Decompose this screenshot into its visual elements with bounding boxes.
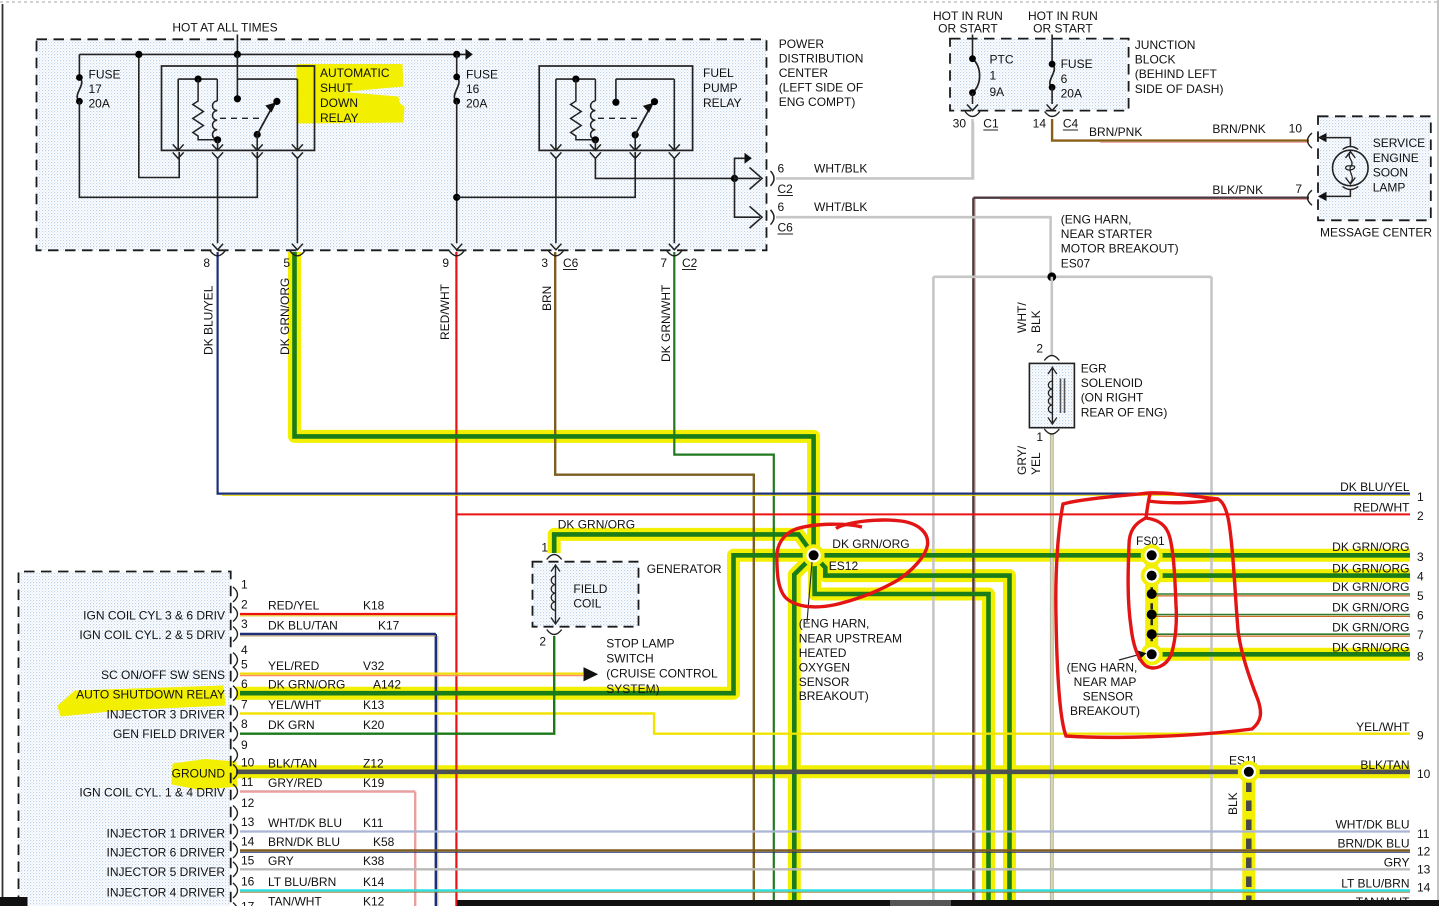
highlight: generator field wire to ES12 [554,534,813,555]
svg-text:11: 11 [241,775,254,789]
svg-text:10: 10 [1289,122,1303,136]
svg-text:20A: 20A [89,97,110,111]
svg-text:(ENG HARN,: (ENG HARN, [799,617,870,631]
svg-text:RED/YEL: RED/YEL [268,599,320,613]
ASD relay internals [178,78,217,80]
FPR switch arm [635,107,650,135]
FPR pin wires [555,158,557,243]
svg-text:ES12: ES12 [829,559,859,573]
svg-text:2: 2 [241,598,248,612]
svg-text:K14: K14 [363,875,385,889]
svg-text:DK GRN/ORG: DK GRN/ORG [1332,580,1409,594]
svg-text:11: 11 [1417,827,1430,841]
splice FS01 dot1 [1141,544,1163,566]
svg-text:NEAR MAP: NEAR MAP [1074,675,1137,689]
wire DK GRN/ORG: ES12 to PCM pin6 [240,555,814,693]
svg-text:K20: K20 [363,718,385,732]
svg-text:EGR: EGR [1081,361,1107,375]
svg-text:RED/WHT: RED/WHT [438,283,452,340]
svg-text:WHT/: WHT/ [1015,302,1029,333]
wire DK GRN/ORG wire5 right (thin) [1152,593,1410,595]
FPR coil ground to WHT/BLK outputs [595,158,734,178]
ASD relay box [162,66,315,150]
svg-text:LT BLU/BRN: LT BLU/BRN [1341,877,1409,891]
PTC 1 9A [972,35,974,59]
svg-text:FUSE: FUSE [89,68,121,82]
svg-text:FUSE: FUSE [1061,57,1093,71]
svg-text:12: 12 [1417,845,1431,859]
wire BLK dashes below ES11 [1246,782,1252,906]
svg-text:10: 10 [1417,767,1431,781]
svg-text:30: 30 [953,117,967,131]
svg-text:YEL/WHT: YEL/WHT [268,698,322,712]
svg-text:3: 3 [541,256,548,270]
svg-text:14: 14 [1033,117,1047,131]
svg-text:20A: 20A [1061,87,1082,101]
svg-text:2: 2 [1036,342,1043,356]
svg-text:C2: C2 [778,182,794,196]
svg-text:DK GRN/ORG: DK GRN/ORG [278,278,292,355]
svg-text:1: 1 [241,578,248,592]
red annotation outer loop around FS01 [1056,493,1261,737]
svg-text:K17: K17 [378,619,400,633]
svg-text:BLK/TAN: BLK/TAN [268,756,317,770]
svg-text:GEN FIELD DRIVER: GEN FIELD DRIVER [113,727,225,741]
svg-text:15: 15 [241,854,255,868]
svg-text:K18: K18 [363,599,385,613]
wire ES07 breakout horizontal [933,275,1211,278]
svg-text:MESSAGE CENTER: MESSAGE CENTER [1320,226,1432,240]
svg-text:DK GRN/ORG: DK GRN/ORG [1332,601,1409,615]
svg-text:14: 14 [241,835,255,849]
svg-text:YEL: YEL [1029,452,1043,475]
svg-text:13: 13 [1417,863,1431,877]
PCM dashed box [19,572,231,906]
field coil dashed box [533,562,639,627]
FPR internals [556,78,596,80]
svg-text:4: 4 [241,643,248,657]
svg-text:REAR OF ENG): REAR OF ENG) [1081,405,1168,419]
wire DK GRN/ORG wire6 right (thin) [1152,614,1410,616]
svg-text:9: 9 [241,738,248,752]
svg-text:IGN COIL CYL. 2 & 5 DRIV: IGN COIL CYL. 2 & 5 DRIV [79,628,225,642]
svg-text:A142: A142 [373,678,401,692]
svg-text:YEL/RED: YEL/RED [268,659,320,673]
svg-text:(LEFT SIDE OF: (LEFT SIDE OF [779,81,863,95]
svg-text:8: 8 [241,717,248,731]
wire DK GRN/ORG: PDC pin5 down and across to ES12 [295,252,814,555]
svg-text:JUNCTION: JUNCTION [1135,38,1196,52]
svg-text:INJECTOR 1 DRIVER: INJECTOR 1 DRIVER [107,827,226,841]
highlight: FS01 splice column [1145,548,1158,660]
ASD switch arm [257,107,272,135]
svg-text:BREAKOUT): BREAKOUT) [1070,704,1140,718]
svg-text:OR START: OR START [1033,22,1093,36]
svg-text:SOLENOID: SOLENOID [1081,376,1143,390]
FPR coil resistor [571,79,596,140]
svg-text:DOWN: DOWN [320,96,358,110]
svg-text:1: 1 [541,541,548,555]
svg-text:2: 2 [1417,509,1424,523]
FPR switch [615,79,617,102]
svg-text:DK GRN/ORG: DK GRN/ORG [1332,641,1409,655]
svg-text:7: 7 [241,698,248,712]
wire RED/WHT to right edge (2) [456,513,1410,515]
wire WHT/BLK vertical ES07 left branch [932,277,935,906]
FUSE 6 20A [1051,35,1053,65]
C6 output chevron [750,206,763,228]
red annotation circle around ES12 [777,520,928,607]
svg-text:WHT/DK BLU: WHT/DK BLU [268,816,342,830]
wire BRN/DK BLU row14 [240,849,1410,851]
svg-text:6: 6 [778,161,785,175]
svg-text:C6: C6 [778,221,794,235]
svg-text:2: 2 [539,635,546,649]
svg-text:12: 12 [241,796,255,810]
svg-text:8: 8 [203,256,210,270]
splice FS01 dot5 [1147,629,1157,639]
wire DK BLU/YEL from PDC pin8 [218,252,1410,494]
svg-text:MOTOR BREAKOUT): MOTOR BREAKOUT) [1061,242,1179,256]
svg-text:DISTRIBUTION: DISTRIBUTION [779,52,864,66]
wire BRN/PNK [1052,119,1309,141]
svg-text:8: 8 [1417,649,1424,663]
lamp top lead [1308,133,1313,148]
highlight: DK GRN/ORG from PDC pin5 to ES12 [295,252,814,555]
wire WHT/BLK from PTC pin30 [971,119,974,178]
svg-text:7: 7 [660,256,667,270]
wire GRY/YEL vertical from EGR pin1 [1050,433,1053,906]
svg-text:INJECTOR 4 DRIVER: INJECTOR 4 DRIVER [107,886,226,900]
svg-text:SWITCH: SWITCH [606,652,653,666]
EGR core bars [1060,378,1062,413]
svg-text:TAN/WHT: TAN/WHT [268,895,322,906]
red annotation inner loop around FS01 column [1128,494,1176,668]
wire fuse17 to ASD pivot [79,101,257,197]
wire fuse16 to FPR pivot [457,152,636,197]
wire LT BLU/BRN row16 [240,889,1410,891]
fuel pump relay box [539,66,692,150]
wire DK GRN PCM row8 to field coil pin2 [240,636,554,734]
wire RED/YEL PCM row2 [240,613,456,615]
svg-text:SYSTEM): SYSTEM) [606,682,659,696]
svg-text:DK GRN: DK GRN [268,718,315,732]
svg-text:BRN/DK BLU: BRN/DK BLU [1337,837,1409,851]
svg-text:10: 10 [241,756,255,770]
lamp filament [1346,152,1355,183]
wire BLK/TAN row10 core [236,769,1410,774]
svg-text:LAMP: LAMP [1373,180,1406,194]
wire DK GRN/ORG: ES12 SE branch down [814,555,1010,906]
svg-text:INJECTOR 3 DRIVER: INJECTOR 3 DRIVER [107,708,226,722]
lamp bottom lead [1346,178,1356,185]
FPR coil inductor [594,79,596,101]
message center fill [1318,116,1431,220]
svg-text:DK GRN/ORG: DK GRN/ORG [1332,620,1409,634]
svg-text:1: 1 [1036,430,1043,444]
svg-text:WHT/DK BLU: WHT/DK BLU [1335,818,1409,832]
svg-text:BLK/TAN: BLK/TAN [1360,758,1409,772]
svg-text:BRN/PNK: BRN/PNK [1212,122,1265,136]
splice FS01 dot4 [1147,610,1157,620]
service engine soon lamp [1333,150,1369,186]
highlight: wire 4 right portion [1146,569,1410,582]
field coil winding [551,576,555,610]
svg-text:DK GRN/ORG: DK GRN/ORG [1332,540,1409,554]
splice FS01 dot3 [1147,589,1157,599]
EGR solenoid box [1029,363,1074,427]
svg-text:SHUT: SHUT [320,81,353,95]
wire DK GRN/ORG: ES12 S branch down [815,555,989,906]
feed wire from HOT AT ALL TIMES [236,35,238,55]
svg-text:K12: K12 [363,895,385,906]
svg-text:BREAKOUT): BREAKOUT) [799,689,869,703]
svg-text:17: 17 [89,82,103,96]
svg-text:ENG COMPT): ENG COMPT) [779,95,856,109]
node ES12 [803,544,825,566]
svg-text:INJECTOR 5 DRIVER: INJECTOR 5 DRIVER [107,865,226,879]
svg-text:7: 7 [1295,182,1302,196]
svg-text:GRY/RED: GRY/RED [268,776,323,790]
wire DK GRN/ORG wire4 right [1146,573,1410,578]
svg-text:C1: C1 [983,117,999,131]
ASD pin wires to PDC bottom [217,158,219,243]
message center dashed box [1318,116,1431,220]
wire WHT/BLK vertical ES07 right branch [1210,277,1213,906]
svg-text:WHT/BLK: WHT/BLK [814,200,867,214]
svg-text:Z12: Z12 [363,756,384,770]
bottom black bar [457,900,1439,906]
svg-text:C2: C2 [682,256,698,270]
ASD coil resistor [193,79,218,140]
svg-text:SENSOR: SENSOR [799,675,850,689]
wire YEL/RED PCM row5 [240,672,583,674]
svg-text:9: 9 [442,256,449,270]
svg-text:RELAY: RELAY [320,111,358,125]
EGR coil [1048,381,1052,413]
svg-text:3: 3 [241,617,248,631]
wire DK GRN/ORG wire8 right [1146,652,1410,657]
svg-text:SOON: SOON [1373,166,1408,180]
svg-text:14: 14 [1417,881,1431,895]
svg-text:16: 16 [241,875,255,889]
svg-text:FIELD: FIELD [573,582,607,596]
svg-text:(ENG HARN,: (ENG HARN, [1067,661,1138,675]
svg-text:PTC: PTC [990,53,1014,67]
svg-text:SC ON/OFF SW SENS: SC ON/OFF SW SENS [101,668,225,682]
EGR solenoid box fill [1029,363,1074,427]
svg-text:NEAR STARTER: NEAR STARTER [1061,227,1153,241]
svg-text:RED/WHT: RED/WHT [1354,501,1411,515]
svg-text:9: 9 [1417,729,1424,743]
svg-text:(CRUISE CONTROL: (CRUISE CONTROL [606,667,718,681]
wire DK BLU/TAN vertical from PCM pin3 [435,634,437,906]
PCM box fill [19,572,231,906]
svg-text:17: 17 [241,900,255,906]
svg-text:20A: 20A [466,97,487,111]
junction block fill [950,39,1129,111]
svg-text:DK GRN/ORG: DK GRN/ORG [558,517,635,531]
svg-text:SENSOR: SENSOR [1083,690,1134,704]
svg-text:1: 1 [990,69,997,83]
svg-text:(ON RIGHT: (ON RIGHT [1081,391,1144,405]
wire GRY/RED PCM row11 [240,790,415,792]
bus wire [79,53,466,55]
wire DK BLU/TAN PCM row3 [240,633,436,635]
svg-text:DK GRN/ORG: DK GRN/ORG [1332,562,1409,576]
svg-text:DK BLU/YEL: DK BLU/YEL [1340,480,1410,494]
wire DK GRN/ORG wire7 right (thin) [1152,633,1410,635]
highlight: wire 8 right portion [1146,648,1410,661]
svg-text:FUEL: FUEL [703,66,734,80]
svg-text:DK BLU/YEL: DK BLU/YEL [202,285,216,355]
fuse 16 [453,51,460,58]
arrow to stop lamp switch [584,668,597,681]
svg-text:6: 6 [241,677,248,691]
wire DK GRN/ORG: ES12 SW branch down [794,555,813,906]
wire BLK/PNK to message center [973,196,1309,198]
wire BRN vertical from PDC pin3 [555,252,754,906]
svg-text:C6: C6 [563,256,579,270]
wire to C6 output [735,178,761,217]
svg-text:BRN/DK BLU: BRN/DK BLU [268,835,340,849]
svg-text:SIDE OF DASH): SIDE OF DASH) [1135,82,1224,96]
highlight AUTO SHUTDOWN RELAY [58,686,225,716]
svg-text:IGN COIL CYL. 1 & 4 DRIV: IGN COIL CYL. 1 & 4 DRIV [79,786,225,800]
svg-text:ENGINE: ENGINE [1373,151,1419,165]
wire GRY/RED vertical from PCM pin11 [414,792,416,906]
svg-text:HOT AT ALL TIMES: HOT AT ALL TIMES [172,21,277,35]
frame top dotted [0,1,1439,3]
svg-text:BLK: BLK [1029,310,1043,333]
svg-text:BRN/PNK: BRN/PNK [1089,125,1142,139]
svg-text:K38: K38 [363,854,385,868]
svg-text:6: 6 [1417,608,1424,622]
svg-text:COIL: COIL [573,596,601,610]
svg-text:INJECTOR 6 DRIVER: INJECTOR 6 DRIVER [107,846,226,860]
C2 output chevron [750,168,763,190]
svg-text:16: 16 [466,82,480,96]
svg-text:POWER: POWER [779,37,825,51]
svg-text:WHT/BLK: WHT/BLK [814,161,867,175]
svg-text:C4: C4 [1063,117,1079,131]
wire WHT/DK BLU row13 [240,830,1410,832]
svg-text:AUTO SHUTDOWN RELAY: AUTO SHUTDOWN RELAY [76,688,225,702]
svg-text:K19: K19 [363,776,385,790]
splice FS01 dot2 [1141,565,1163,587]
svg-text:ES07: ES07 [1061,256,1091,270]
svg-text:SERVICE: SERVICE [1373,136,1425,150]
svg-text:OXYGEN: OXYGEN [799,660,850,674]
ASD relay pin chevrons [173,144,184,150]
svg-text:4: 4 [1417,569,1424,583]
svg-text:3: 3 [1417,550,1424,564]
highlight GROUND [172,760,237,790]
svg-text:HEATED: HEATED [799,646,847,660]
frame right [1437,0,1439,906]
wire WHT/BLK C2 [776,122,973,178]
highlight: ES12 S branch [815,555,989,906]
svg-text:(ENG HARN,: (ENG HARN, [1061,212,1132,226]
label AUTOMATIC SHUT DOWN RELAY highlight [297,65,404,124]
svg-text:GRY/: GRY/ [1015,445,1029,475]
highlight: ES12 SE branch [814,555,1010,906]
svg-text:DK BLU/TAN: DK BLU/TAN [268,619,338,633]
svg-text:6: 6 [1061,72,1068,86]
PDC box fill [37,39,767,250]
svg-text:NEAR UPSTREAM: NEAR UPSTREAM [799,631,902,645]
highlight: ES12 SW branch down [794,555,813,906]
svg-text:V32: V32 [363,659,385,673]
svg-text:13: 13 [241,815,255,829]
svg-text:CENTER: CENTER [779,66,829,80]
svg-text:1: 1 [1417,490,1424,504]
svg-text:DK GRN/ORG: DK GRN/ORG [832,537,909,551]
svg-text:PUMP: PUMP [703,81,738,95]
svg-text:7: 7 [1417,628,1424,642]
wire DK GRN/ORG: field coil pin1 to ES12 [554,534,813,555]
wire bus to ASD coil pin [139,54,179,177]
wire DK GRN/ORG wire3 right [814,553,1410,558]
svg-text:K58: K58 [373,835,395,849]
fuse 17 [78,54,80,77]
leader to FS01 [1119,655,1138,660]
svg-text:BLOCK: BLOCK [1135,53,1176,67]
splice FS01 dot6 [1141,643,1163,665]
ASD switch [234,51,241,58]
svg-text:5: 5 [1417,589,1424,603]
highlight: ES12 to PCM pin6 [236,555,814,693]
wire WHT/BLK C6 [776,217,1051,277]
svg-text:(BEHIND LEFT: (BEHIND LEFT [1135,67,1218,81]
svg-text:FUSE: FUSE [466,68,498,82]
svg-text:GROUND: GROUND [172,767,226,781]
svg-text:BLK/PNK: BLK/PNK [1212,183,1263,197]
wire RED/WHT vertical from PDC pin9 [455,252,457,906]
wire GRY row15 [240,868,1410,870]
svg-text:RELAY: RELAY [703,96,741,110]
svg-text:BLK: BLK [1226,792,1240,815]
frame left [2,4,4,899]
svg-text:AUTOMATIC: AUTOMATIC [320,66,390,80]
junction block dashed box [950,39,1129,111]
power distribution center dashed box [37,39,767,250]
svg-text:K11: K11 [363,816,384,830]
wire WHT/BLK to EGR pin2 [1051,277,1054,356]
wire BLK/PNK vertical [972,198,974,906]
ASD coil inductor [216,79,218,101]
svg-text:IGN COIL CYL 3 & 6 DRIV: IGN COIL CYL 3 & 6 DRIV [83,609,225,623]
svg-text:5: 5 [283,256,290,270]
leader line ES12 [807,562,812,622]
svg-text:YEL/WHT: YEL/WHT [1356,720,1410,734]
svg-text:K13: K13 [363,698,385,712]
svg-text:DK GRN/WHT: DK GRN/WHT [659,284,673,362]
svg-text:OR START: OR START [938,22,998,36]
svg-text:STOP LAMP: STOP LAMP [606,636,674,650]
highlight: BLK/TAN row10 [232,765,1410,778]
svg-text:GRY: GRY [1384,856,1410,870]
svg-text:GRY: GRY [268,854,294,868]
svg-text:DK GRN/ORG: DK GRN/ORG [268,678,345,692]
highlight: wire 3 to right edge [814,549,1410,562]
svg-text:LT BLU/BRN: LT BLU/BRN [268,875,336,889]
wire YEL/WHT PCM row7 to right edge 9 [240,714,1410,734]
FPR relay pin chevrons [550,144,561,150]
svg-text:GENERATOR: GENERATOR [647,562,722,576]
svg-text:BRN: BRN [540,286,554,311]
node ES07 [1047,272,1056,281]
